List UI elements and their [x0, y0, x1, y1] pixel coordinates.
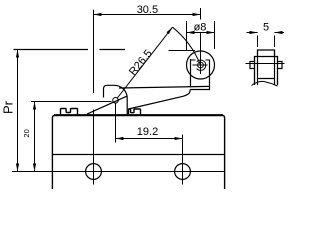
dim Pr line: [17, 50, 19, 172]
right hole vertical centerline: [182, 135, 184, 185]
switch body outline: [52, 115, 224, 189]
roller bracket foot: [190, 86, 209, 89]
lever bottom edge diagonal: [129, 90, 191, 110]
free position reference line (middle segment): [100, 49, 126, 51]
svg-text:5: 5: [263, 22, 269, 34]
lever pivot lobe with hinge: [104, 85, 128, 115]
svg-text:Pr: Pr: [1, 100, 16, 114]
dim 30.5 line: [94, 14, 201, 16]
dim 19.2 line: [116, 138, 183, 140]
dim 19.2 arrow left: [116, 137, 124, 140]
dim 30.5 left extension: [93, 10, 95, 93]
side view dim 5 extension right: [274, 36, 276, 48]
dim 19.2 arrow right: [175, 137, 183, 140]
svg-text:ø8: ø8: [194, 22, 207, 34]
side view inner plate line right: [274, 57, 276, 86]
roller vertical centerline lower segment: [200, 33, 202, 75]
lever top edge: [119, 86, 210, 88]
R26.5 arrow: [167, 27, 173, 34]
mounting hole centerline: [12, 171, 225, 173]
body inner horizontal line: [53, 154, 225, 156]
side view inner plate line left: [257, 57, 259, 86]
dim 30.5 arrow right: [193, 13, 201, 16]
R26.5 leader line: [117, 27, 173, 98]
side view dim 5 extension left: [257, 36, 259, 48]
side view dim 5 arrow left: [250, 31, 258, 34]
svg-text:20: 20: [22, 129, 31, 137]
terminal screw left: [61, 109, 78, 116]
roller outer circle: [187, 51, 215, 79]
roller crosshair horizontal: [193, 64, 208, 66]
side view dim 5 line left segment: [247, 32, 258, 34]
dim 19.2 left extension: [115, 103, 117, 142]
roller bracket left side: [190, 59, 192, 86]
dim 20 top extension line: [31, 101, 112, 103]
dim 20 line: [34, 102, 36, 172]
roller hub inner: [198, 62, 204, 68]
left mounting hole: [86, 164, 102, 180]
dim Pr arrow bottom: [16, 164, 19, 172]
dim o8 arrow left: [187, 31, 195, 34]
svg-text:19.2: 19.2: [137, 126, 158, 138]
right mounting hole: [175, 164, 191, 180]
side view dim 5 line right segment: [275, 32, 285, 34]
roller bracket right side: [209, 60, 211, 87]
dim 20 arrow top: [33, 102, 36, 110]
dim 30.5 right tick: [200, 10, 202, 19]
svg-text:30.5: 30.5: [137, 4, 158, 16]
left hole vertical centerline: [93, 110, 95, 185]
roller top tangent segment: [169, 50, 196, 52]
roller bracket top edge nub left: [191, 59, 196, 61]
dim 30.5 arrow left: [94, 13, 102, 16]
dim o8 extension left: [186, 21, 188, 51]
dim Pr arrow top: [16, 50, 19, 58]
roller vertical centerline upper segment: [200, 8, 202, 20]
dim o8 extension right: [214, 21, 216, 49]
dim o8 arrow right: [207, 31, 215, 34]
side view axle centerline: [246, 63, 285, 65]
side view bracket: [255, 57, 278, 86]
R26.5 trajectory arc: [173, 27, 201, 65]
side view inner bottom line: [258, 78, 275, 80]
terminal screw middle: [129, 109, 141, 115]
roller bracket top edge nub right: [206, 59, 210, 61]
dim o8 line: [187, 32, 215, 34]
dim 20 arrow bottom: [33, 164, 36, 172]
side view axle tab right: [278, 62, 283, 69]
pivot pin hole: [113, 98, 119, 104]
roller hub outer: [197, 60, 206, 70]
side view dim 5 arrow right: [275, 31, 283, 34]
lever left tail (bent end on body): [87, 96, 127, 114]
side view roller: [258, 50, 275, 57]
side view wavy break line: [252, 81, 278, 86]
free position reference line (left segment): [14, 49, 89, 51]
body top edge emphasis: [54, 114, 223, 116]
side view axle tab left: [250, 62, 255, 69]
